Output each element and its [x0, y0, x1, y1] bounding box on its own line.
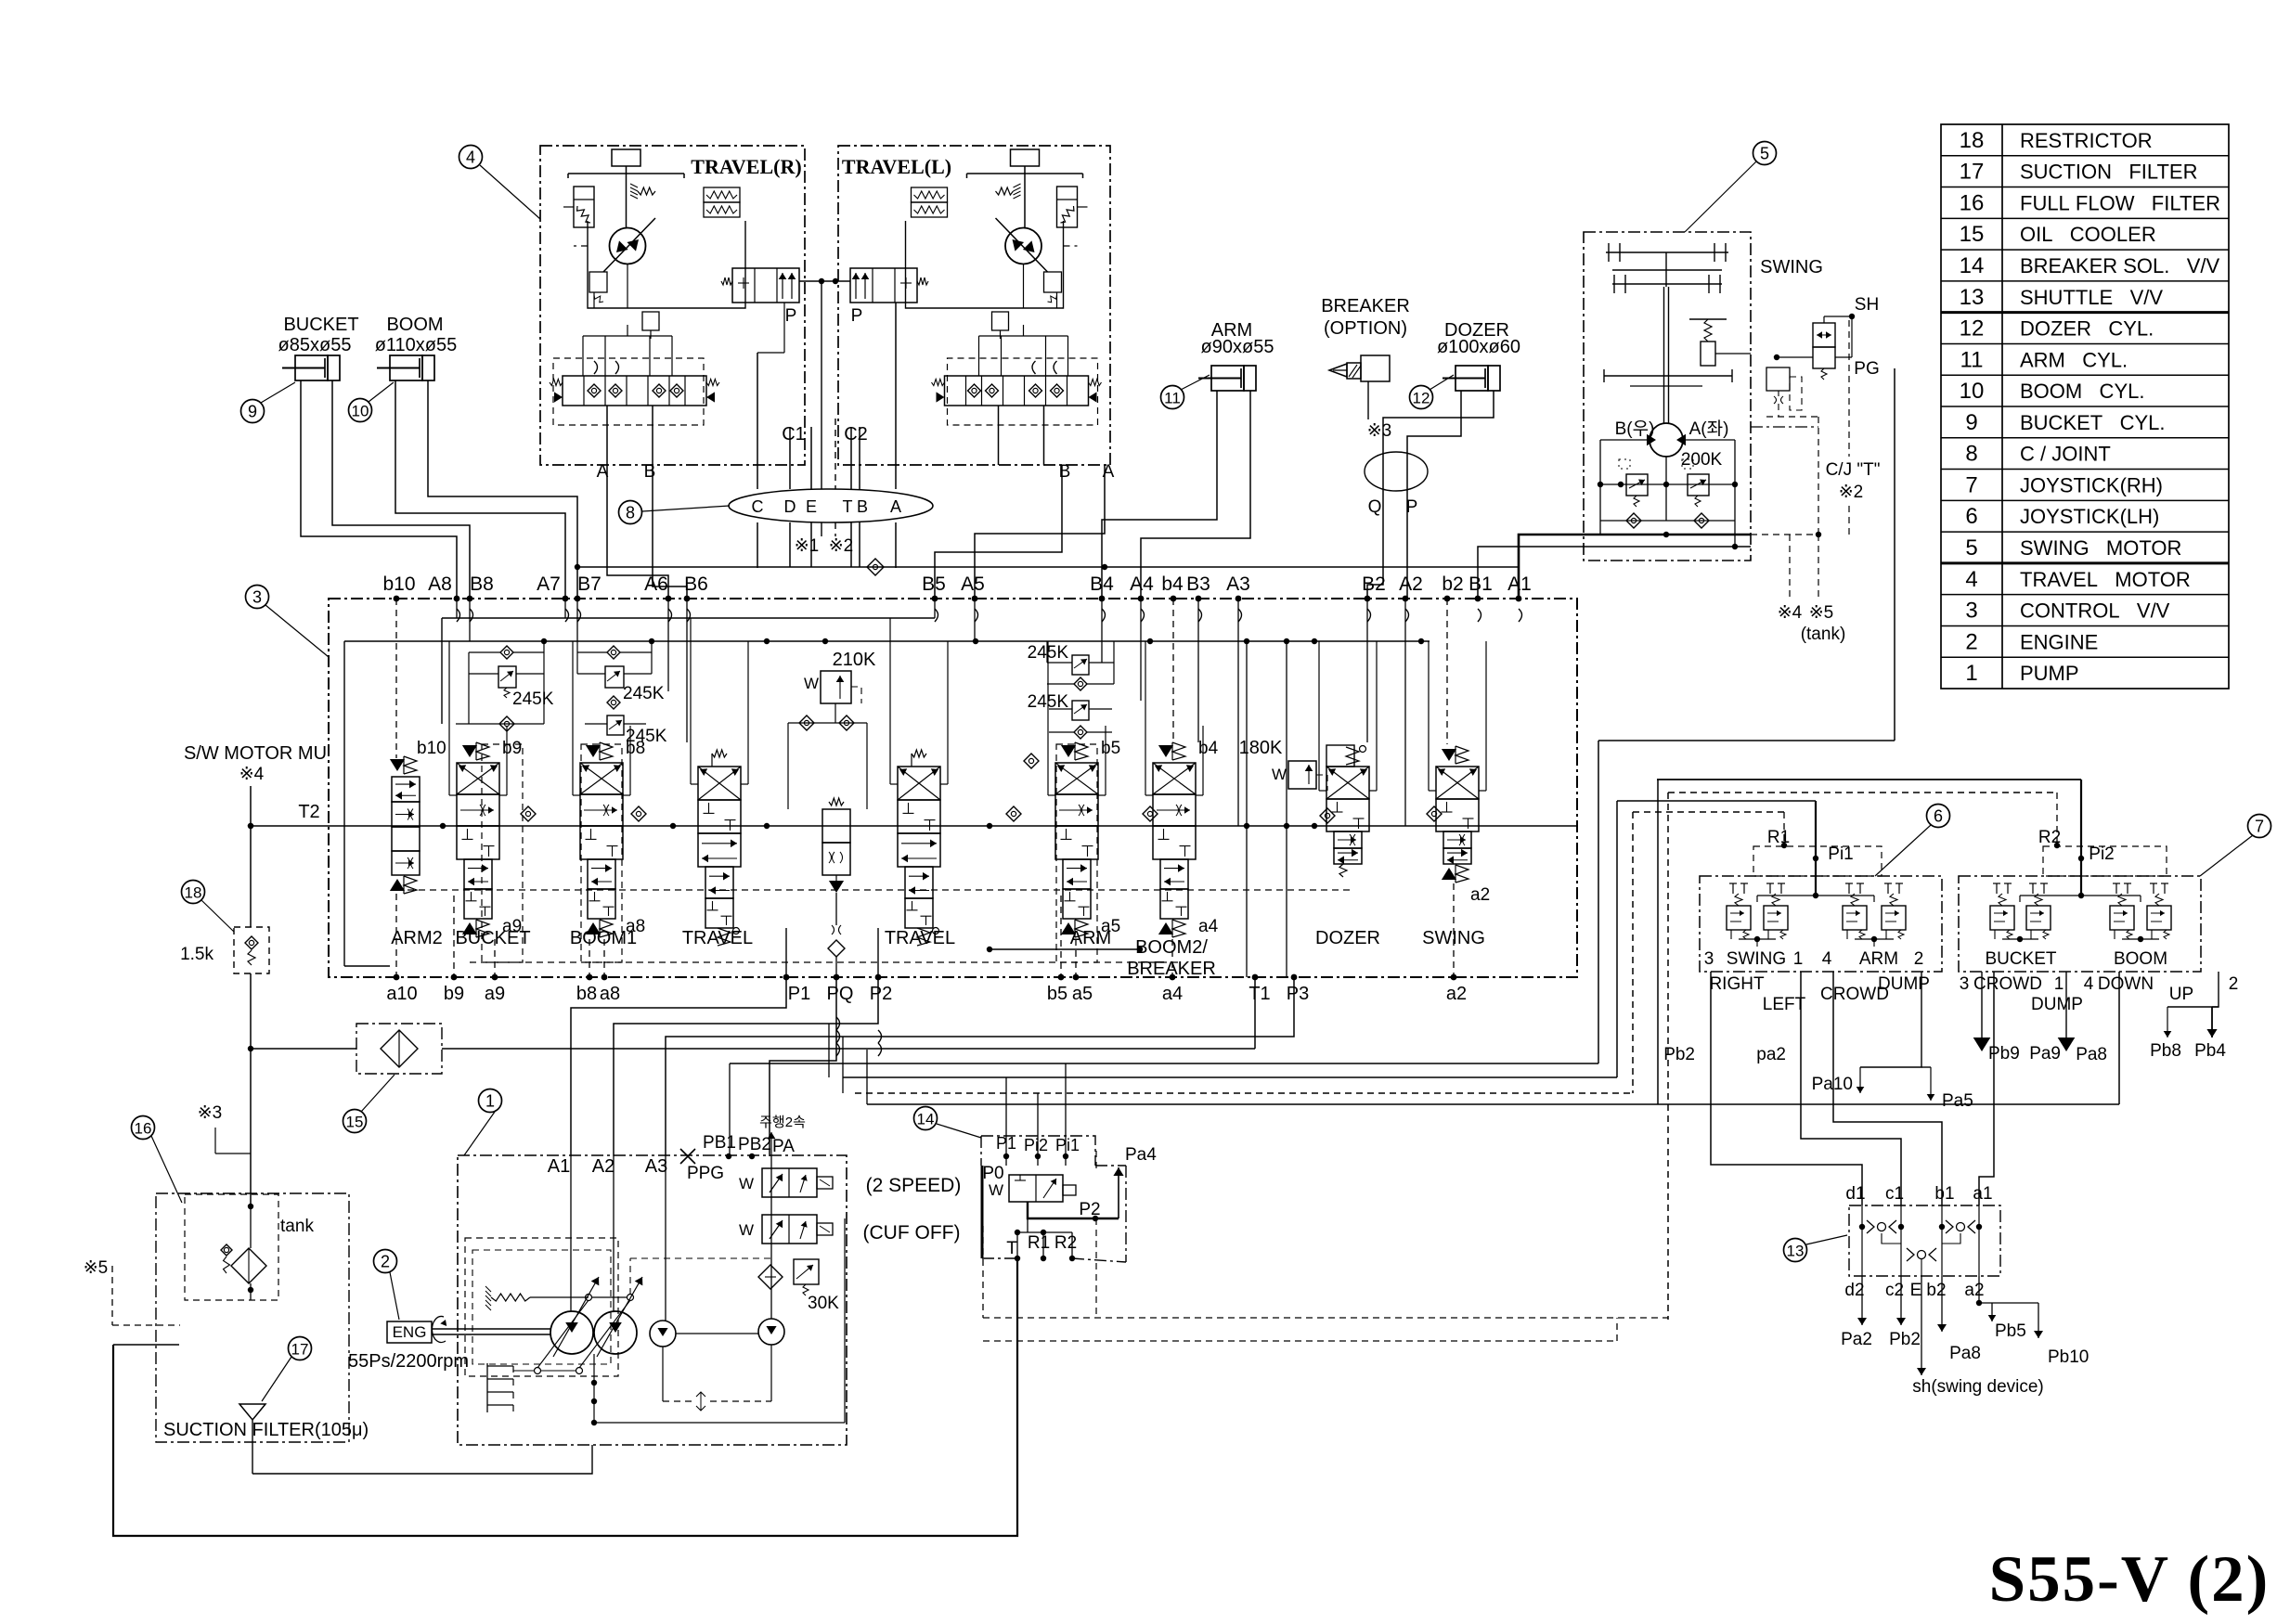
svg-text:A8: A8: [428, 574, 452, 595]
swash linkage circles: [535, 1368, 541, 1374]
svg-text:PG: PG: [1854, 359, 1879, 379]
joystick RH (7) box: [1959, 876, 2201, 972]
Pa8 label and down line: [2118, 972, 2120, 1104]
svg-text:P3: P3: [1287, 984, 1309, 1004]
swing supply heavy wires: [1519, 535, 1584, 599]
svg-text:E: E: [1910, 1281, 1922, 1300]
shuttle symbol 3: [1907, 1248, 1914, 1261]
svg-text:4: 4: [1965, 567, 1977, 592]
svg-text:A(좌): A(좌): [1689, 419, 1729, 439]
svg-text:B: B: [1059, 462, 1071, 482]
svg-text:DOZER CYL.: DOZER CYL.: [2020, 317, 2154, 341]
svg-text:b4: b4: [1198, 739, 1219, 758]
callout circle 8: [619, 501, 642, 524]
callout circle 12: [1410, 386, 1433, 409]
svg-text:C: C: [752, 497, 764, 516]
svg-text:W: W: [1272, 766, 1287, 783]
svg-text:Pb9: Pb9: [1988, 1044, 2020, 1063]
travel motor (R) shuttle dashed box: [948, 358, 1098, 425]
suction pipe to pump: [252, 1445, 592, 1474]
callout circle 7: [2248, 815, 2271, 838]
restrictor (18): [182, 881, 205, 904]
shuttle symbol 1: [1867, 1220, 1874, 1233]
travel motor (R) brake cylinder: [1057, 187, 1078, 227]
svg-text:17: 17: [1960, 160, 1985, 185]
R1 dashed drop: [1783, 812, 1785, 845]
svg-text:55Ps/2200rpm: 55Ps/2200rpm: [348, 1351, 469, 1372]
travel C1/C2 bundle wires: [757, 353, 758, 489]
svg-text:D: D: [784, 497, 796, 516]
pump dashed feedback: [629, 1258, 631, 1295]
joystick LH output pa2 line to shuttle c1: [1801, 972, 1901, 1205]
R2 dashed drop: [2056, 793, 2058, 845]
svg-text:UP: UP: [2169, 985, 2193, 1004]
travel motor (L) internals (mirrored): [906, 149, 1102, 465]
svg-text:18: 18: [185, 884, 202, 902]
svg-text:P2: P2: [870, 984, 892, 1004]
svg-text:TRAVEL(L): TRAVEL(L): [842, 155, 951, 178]
svg-text:4: 4: [1822, 949, 1832, 969]
joystick LH pilot valves: [1732, 883, 1734, 894]
svg-text:12: 12: [1413, 390, 1430, 407]
callout circle 9: [241, 400, 265, 423]
BUCKET dashed box: [482, 744, 523, 962]
swing check valves: [1600, 520, 1735, 522]
svg-text:RIGHT: RIGHT: [1709, 974, 1765, 994]
wire between travel pilot valves: [799, 280, 850, 282]
travel motor (R) shuttle dashed box: [553, 358, 704, 425]
svg-text:180K: 180K: [1239, 738, 1283, 758]
check diamond near 30K: [758, 1265, 783, 1289]
svg-text:P: P: [1406, 497, 1418, 517]
svg-text:10: 10: [1960, 379, 1985, 404]
swing brake piston: [1689, 318, 1727, 320]
svg-text:BUCKET: BUCKET: [455, 928, 530, 948]
svg-text:SUCTION FILTER(105μ): SUCTION FILTER(105μ): [163, 1420, 369, 1440]
shuttle symbol 2: [1946, 1220, 1953, 1233]
svg-text:1: 1: [1965, 661, 1977, 686]
svg-text:ENG: ENG: [393, 1323, 427, 1341]
svg-text:b2: b2: [1926, 1281, 1946, 1300]
svg-text:TRAVEL: TRAVEL: [885, 928, 955, 948]
svg-text:ø85xø55: ø85xø55: [278, 335, 352, 355]
T1 P3 columns: [1246, 641, 1248, 826]
svg-text:Pi1: Pi1: [1055, 1136, 1080, 1154]
svg-text:BOOM1: BOOM1: [570, 928, 637, 948]
travel motor (R) valve risers: [1067, 336, 1069, 376]
control valve top port line: [394, 596, 400, 602]
svg-text:P1: P1: [788, 984, 810, 1004]
svg-text:SWING: SWING: [1727, 949, 1786, 969]
callout circle 4: [459, 146, 483, 169]
svg-text:11: 11: [1164, 390, 1181, 407]
SWING pilot dashed lines: [1446, 599, 1448, 744]
Pa9 output: [2065, 972, 2067, 1038]
valve section TRAVEL (2): [912, 750, 926, 757]
svg-text:A6: A6: [644, 574, 668, 595]
center column to PQ port: [835, 893, 837, 925]
pilot line to *1: [821, 281, 822, 489]
travel motor (R) relief valve 1: [1044, 272, 1062, 292]
svg-text:ARM CYL.: ARM CYL.: [2020, 348, 2128, 371]
svg-text:CROWD: CROWD: [1973, 974, 2042, 994]
svg-text:b10: b10: [382, 574, 415, 595]
travel motor (R) counterbalance springs: [912, 187, 948, 202]
boom cylinder wires: [395, 380, 565, 599]
svg-text:※3: ※3: [1367, 421, 1392, 441]
wire P1 to pump A1: [571, 977, 786, 1156]
shuttle bottom outputs: [1861, 1276, 1863, 1325]
svg-text:ARM2: ARM2: [391, 928, 443, 948]
swing PG line: [1835, 356, 1852, 358]
svg-text:BREAKER: BREAKER: [1321, 296, 1410, 316]
inner rail 691: [344, 640, 1430, 642]
svg-text:Pb2: Pb2: [1663, 1045, 1695, 1064]
svg-text:BREAKER: BREAKER: [1127, 959, 1216, 979]
svg-text:OIL COOLER: OIL COOLER: [2020, 223, 2156, 246]
swing hydraulic motor: [1650, 423, 1683, 457]
svg-text:SWING MOTOR: SWING MOTOR: [2020, 536, 2181, 560]
svg-text:W: W: [739, 1175, 754, 1192]
travel motor (R) hydraulic motor: [610, 228, 646, 264]
swing gear line: [1604, 375, 1732, 377]
travel motor (R) brake port rect: [612, 149, 640, 166]
breaker sol valve (14) box: [981, 1136, 1095, 1166]
center bypass compensator: [829, 798, 844, 806]
svg-text:b2: b2: [1442, 574, 1463, 595]
svg-text:※2: ※2: [1839, 483, 1864, 502]
BUCKET pilot dashed lines: [453, 896, 455, 977]
BOOM1 relief 245K lower: [607, 715, 624, 735]
svg-text:PUMP: PUMP: [2020, 662, 2079, 685]
callout circle 6: [1927, 805, 1950, 828]
svg-text:a2: a2: [1446, 984, 1467, 1004]
svg-text:SHUTTLE V/V: SHUTTLE V/V: [2020, 286, 2163, 309]
2-speed solenoid valve 2: [762, 1215, 817, 1244]
svg-text:PB2: PB2: [738, 1135, 771, 1154]
valve section DOZER: [1326, 745, 1354, 767]
svg-text:LEFT: LEFT: [1763, 995, 1806, 1014]
svg-text:18: 18: [1960, 128, 1985, 153]
callout circle 1: [479, 1089, 502, 1113]
Pi2 column: [2080, 780, 2082, 876]
svg-text:200K: 200K: [1681, 450, 1723, 470]
dashed rail 1037: [470, 961, 1179, 963]
valve section BOOM2/BREAKER: [1153, 763, 1196, 794]
svg-text:Pb10: Pb10: [2048, 1347, 2089, 1367]
dashed bottom returns: [983, 1317, 1668, 1319]
svg-text:C2: C2: [844, 424, 868, 445]
ARM relief 245K lower: [1072, 701, 1089, 720]
inner rail 666: [442, 617, 935, 619]
svg-text:SWING: SWING: [1760, 257, 1823, 277]
swing relief valves: [1626, 474, 1648, 496]
svg-text:ø110xø55: ø110xø55: [375, 335, 458, 355]
svg-text:Pb4: Pb4: [2194, 1041, 2226, 1061]
R2 Pi2 labels and dashed box: [2043, 846, 2167, 876]
svg-text:a2: a2: [1470, 885, 1490, 905]
svg-text:A: A: [890, 497, 901, 516]
swing tank dashed lines: [1751, 534, 1818, 535]
travel motor (R) anchored spring: [996, 187, 1014, 195]
travel motor (R) hydraulic motor: [1005, 228, 1041, 264]
swing bottom rails: [1584, 534, 1751, 536]
svg-text:2: 2: [1914, 949, 1924, 969]
svg-text:245K: 245K: [626, 727, 667, 746]
pump 2 circle: [594, 1311, 637, 1354]
svg-text:4: 4: [2084, 974, 2094, 994]
svg-text:FULL FLOW FILTER: FULL FLOW FILTER: [2020, 191, 2220, 214]
travel pilot valve (R): [732, 268, 799, 303]
travel motor (R) valve risers: [582, 336, 584, 376]
svg-text:C / JOINT: C / JOINT: [2020, 443, 2111, 466]
dashed line right of breaker sol: [1095, 1151, 1097, 1169]
PG down line: [1894, 368, 1895, 741]
svg-text:2: 2: [381, 1253, 390, 1271]
pump 1 circle: [550, 1311, 593, 1354]
svg-text:A3: A3: [1226, 574, 1250, 595]
svg-text:13: 13: [1787, 1243, 1805, 1260]
Pb9 output: [1981, 972, 1983, 1038]
check valve right of boom1 spool: [631, 806, 646, 821]
svg-text:T: T: [843, 497, 853, 516]
pump dashed control boxes: [465, 1238, 618, 1376]
svg-text:BUCKET: BUCKET: [1985, 949, 2056, 969]
svg-text:b5: b5: [1047, 984, 1067, 1004]
svg-text:B7: B7: [577, 574, 602, 595]
svg-text:d1: d1: [1845, 1184, 1865, 1204]
svg-text:4: 4: [466, 148, 475, 167]
joystick LH internal links: [1739, 938, 1776, 940]
P1/P2 feed columns inside valve: [785, 928, 787, 977]
check valve left of swing spool: [1427, 806, 1442, 821]
svg-text:b1: b1: [1934, 1184, 1954, 1204]
svg-text:TRAVEL(R): TRAVEL(R): [691, 155, 801, 178]
callout circle 10: [349, 399, 372, 422]
breaker wire and *3: [1367, 381, 1369, 419]
svg-text:A4: A4: [1130, 574, 1154, 595]
valve section ARM: [1055, 763, 1098, 794]
svg-text:a1: a1: [1973, 1184, 1992, 1204]
svg-text:A2: A2: [1399, 574, 1423, 595]
svg-text:PQ: PQ: [827, 984, 854, 1004]
svg-text:12: 12: [1960, 316, 1985, 342]
svg-text:Pi2: Pi2: [2089, 844, 2114, 864]
travel motor (R) motor frame: [588, 221, 745, 308]
svg-text:7: 7: [1965, 472, 1977, 497]
svg-text:PPG: PPG: [687, 1164, 724, 1183]
check valve right of arm spool: [1006, 806, 1021, 821]
svg-text:a4: a4: [1162, 984, 1183, 1004]
travel motor (R) relief valve 1: [589, 272, 607, 292]
ARM2 pilot dashed lines: [395, 599, 397, 758]
svg-text:W: W: [804, 675, 819, 692]
svg-text:10: 10: [352, 403, 369, 420]
R1 Pi1 labels and dashed box: [1753, 846, 1882, 876]
svg-text:DOWN: DOWN: [2098, 974, 2154, 994]
C/J coupling ellipse Q P: [1365, 452, 1428, 491]
callout circle 11: [1161, 386, 1184, 409]
coupling ellipse (8): [729, 489, 933, 522]
pump (1) box: [458, 1155, 847, 1445]
BOOM1 pilot dashed lines: [589, 939, 590, 977]
svg-text:14: 14: [917, 1111, 935, 1128]
ARM pilot dashed lines: [1060, 896, 1062, 977]
inner bottom rail 1023: [990, 948, 1140, 950]
svg-text:1: 1: [485, 1092, 495, 1111]
svg-text:C/J "T": C/J "T": [1826, 460, 1881, 480]
inputs to breaker sol: [1005, 1156, 1007, 1166]
swing pilot shuttle valve SH: [1813, 323, 1835, 347]
svg-text:ARM: ARM: [1859, 949, 1898, 969]
svg-text:pa2: pa2: [1756, 1045, 1786, 1064]
center check valves: [799, 715, 814, 730]
bottom left return lines: [113, 1258, 1017, 1536]
svg-text:B3: B3: [1186, 574, 1210, 595]
svg-text:Pb5: Pb5: [1995, 1321, 2026, 1341]
port jog connectors below top line: [457, 609, 460, 622]
travel motor (L) assembly box: [838, 146, 1110, 465]
svg-text:B(우): B(우): [1615, 419, 1655, 439]
shuttle valve (13) box: [1849, 1205, 2000, 1276]
svg-text:A7: A7: [537, 574, 561, 595]
svg-text:B: B: [857, 497, 868, 516]
svg-text:SH: SH: [1855, 295, 1879, 315]
svg-text:B6: B6: [684, 574, 708, 595]
pump internal verticals: [570, 1156, 572, 1311]
tank inner dashed box: [185, 1194, 278, 1300]
svg-text:BOOM: BOOM: [2114, 949, 2167, 969]
svg-text:BREAKER SOL. V/V: BREAKER SOL. V/V: [2020, 254, 2220, 277]
right bundle verticals: [1598, 741, 1599, 1063]
svg-text:B4: B4: [1090, 574, 1114, 595]
BOOM2 pilot dashed lines: [1172, 599, 1174, 742]
svg-text:30K: 30K: [808, 1294, 839, 1313]
svg-text:T1: T1: [1249, 984, 1270, 1004]
callout circle 5: [1753, 142, 1777, 165]
svg-text:8: 8: [626, 504, 635, 522]
swash plate arrows: [553, 1277, 599, 1357]
travel motor (R) counterbalance springs: [704, 187, 740, 202]
svg-text:Q: Q: [1368, 497, 1382, 517]
svg-text:245K: 245K: [623, 684, 665, 703]
pump 3 circle: [650, 1321, 676, 1347]
valve section ARM2: [392, 777, 420, 802]
travel (L) wires to valve ports: [935, 465, 1062, 599]
rail above valve: [577, 566, 1519, 568]
svg-text:S/W MOTOR MU: S/W MOTOR MU: [184, 743, 327, 764]
pump drain lines: [593, 1354, 595, 1423]
relief 30K: [794, 1259, 819, 1284]
valve section SWING: [1436, 767, 1479, 799]
pump control spring: [485, 1286, 491, 1292]
svg-text:6: 6: [1934, 807, 1943, 826]
svg-text:A1: A1: [1507, 574, 1532, 595]
svg-text:1.5k: 1.5k: [180, 945, 213, 964]
bundle stubs near pump: [828, 1024, 830, 1077]
svg-text:RESTRICTOR: RESTRICTOR: [2020, 129, 2153, 152]
svg-text:ENGINE: ENGINE: [2020, 630, 2098, 653]
travel motor (R) pilot lines: [1023, 264, 1025, 309]
joystick LH (6) box: [1700, 876, 1942, 972]
2-speed solenoid valve 1: [762, 1168, 817, 1197]
svg-text:BOOM CYL.: BOOM CYL.: [2020, 380, 2144, 403]
swing gear coupling: [1606, 251, 1728, 253]
svg-text:B1: B1: [1468, 574, 1493, 595]
BOOM1 relief 245K upper: [605, 666, 624, 688]
svg-text:TRAVEL: TRAVEL: [682, 928, 753, 948]
svg-text:b4: b4: [1161, 574, 1184, 595]
engine (2): [374, 1250, 397, 1273]
travel motor (R) brake port rect: [1011, 149, 1040, 166]
travel motor (R) shuttle valve block: [945, 376, 1089, 406]
svg-text:b9: b9: [444, 984, 464, 1004]
suction filter (17): [289, 1337, 312, 1360]
control valve (3) box: [329, 599, 1577, 977]
svg-text:※5: ※5: [84, 1258, 109, 1278]
svg-text:1: 1: [2054, 974, 2064, 994]
svg-text:(tank): (tank): [1801, 625, 1846, 644]
svg-text:Pb2: Pb2: [1889, 1330, 1921, 1349]
svg-text:3: 3: [1965, 599, 1977, 624]
svg-text:P: P: [851, 306, 863, 326]
travel motor (R) pilot lines: [627, 264, 628, 309]
svg-text:※4: ※4: [1778, 603, 1803, 623]
svg-text:2: 2: [2229, 974, 2239, 994]
check valve left of arm spool: [1024, 754, 1039, 768]
svg-text:9: 9: [1965, 410, 1977, 435]
control valve bottom port labels: [394, 974, 400, 981]
arm cylinder wires: [1102, 391, 1217, 599]
svg-text:5: 5: [1760, 145, 1769, 163]
joystick LH crowd line to shuttle b1: [1833, 972, 1942, 1205]
svg-text:Pi2: Pi2: [1024, 1136, 1048, 1154]
svg-text:2: 2: [1965, 629, 1977, 654]
svg-text:※2: ※2: [829, 536, 854, 556]
BUCKET check valve: [499, 716, 514, 731]
swing pilot dashed lines: [1766, 416, 1818, 418]
svg-text:ø100xø60: ø100xø60: [1437, 337, 1520, 357]
svg-text:(CUF OFF): (CUF OFF): [863, 1222, 961, 1244]
pilot line to *2 (dashed): [834, 419, 836, 489]
shuttle internals: [1861, 1205, 1863, 1276]
svg-text:Pb8: Pb8: [2150, 1041, 2181, 1061]
wire PQ to pump: [770, 977, 836, 1156]
PPG orifice: [680, 1149, 695, 1164]
Pa10/Pa5 outputs: [1860, 972, 1921, 1067]
svg-text:15: 15: [1960, 222, 1985, 247]
svg-text:6: 6: [1965, 504, 1977, 529]
svg-text:P0: P0: [982, 1164, 1003, 1183]
bundle junction dots: [1813, 856, 1818, 861]
check valve right of boom2 spool: [1143, 806, 1158, 821]
svg-text:Pa8: Pa8: [2076, 1045, 2107, 1064]
svg-text:W: W: [989, 1181, 1003, 1199]
svg-text:T2: T2: [298, 802, 319, 822]
svg-text:BOOM: BOOM: [386, 315, 443, 335]
svg-text:B: B: [644, 462, 656, 482]
svg-text:245K: 245K: [512, 690, 554, 709]
dozer cylinder wires: [1407, 391, 1461, 599]
travel motor (R) top bar: [568, 173, 684, 174]
dashed rail 959: [396, 889, 1352, 891]
travel motor (R) motor frame: [906, 221, 1064, 308]
swing orifice box: [1766, 367, 1790, 391]
wire T1 to oil cooler: [1254, 977, 1256, 1049]
svg-text:210K: 210K: [833, 650, 876, 670]
swing motor rails: [1665, 457, 1667, 521]
svg-text:a10: a10: [386, 984, 417, 1004]
